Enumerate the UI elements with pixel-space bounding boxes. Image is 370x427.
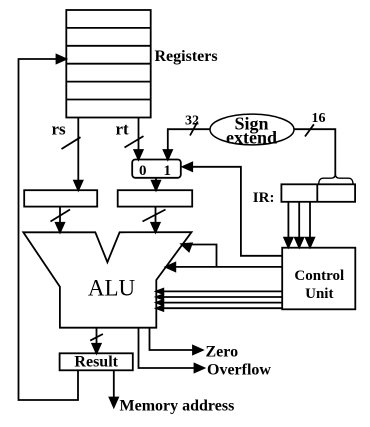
svg-text:Unit: Unit <box>305 286 333 302</box>
IR register <box>281 184 355 202</box>
svg-text:ALU: ALU <box>88 276 136 301</box>
control unit <box>282 248 355 310</box>
svg-text:extend: extend <box>226 128 277 148</box>
svg-text:16: 16 <box>312 111 326 126</box>
wire rs (read data 1) <box>62 118 83 191</box>
svg-text:Result: Result <box>74 354 118 371</box>
svg-text:rt: rt <box>116 120 130 139</box>
wire: latch A to ALU input <box>51 207 71 233</box>
svg-text:Zero: Zero <box>206 344 239 361</box>
sign extend unit <box>210 114 294 148</box>
wire: control to ALU right slant <box>166 263 282 271</box>
svg-text:rs: rs <box>52 120 67 139</box>
svg-text:Memory address: Memory address <box>120 398 235 415</box>
wire: 16-bit bus IR immediate to sign-extend <box>294 124 335 175</box>
svg-text:IR:: IR: <box>253 190 275 206</box>
latch A (read data 1 register) <box>24 190 97 206</box>
wire: ALU result to Result register <box>90 328 103 354</box>
svg-text:32: 32 <box>185 114 199 129</box>
latch B (read data 2 register) <box>118 190 193 206</box>
wire: memory address output <box>110 370 118 407</box>
register file <box>66 10 150 118</box>
Result register <box>60 353 133 370</box>
mux (ALUSrc) <box>132 160 181 180</box>
svg-text:Registers: Registers <box>155 48 218 65</box>
wire: overflow flag output <box>139 328 205 373</box>
svg-text:Overflow: Overflow <box>207 362 271 379</box>
wire: latch B to ALU input <box>143 207 166 233</box>
wire: result feedback to register file <box>19 55 79 400</box>
ALU <box>23 232 191 328</box>
svg-text:1: 1 <box>164 163 172 179</box>
svg-text:Control: Control <box>294 268 344 284</box>
wire: 32-bit bus sign-extend to mux input 1 <box>164 122 210 160</box>
wire: zero flag output <box>150 328 203 355</box>
wires: ALU control bundle (4 lines) <box>156 289 282 311</box>
wires: IR opcode to control unit (3 lines) <box>284 202 314 247</box>
wire: mux output to B latch <box>152 178 160 190</box>
svg-text:0: 0 <box>139 163 147 179</box>
wire: control to ALU (diagonal arrow at top-right corner) <box>181 243 216 267</box>
wire rt (read data 2) <box>125 118 144 160</box>
brace over IR immediate field <box>319 174 354 184</box>
wire: mux select from control unit <box>183 163 283 256</box>
